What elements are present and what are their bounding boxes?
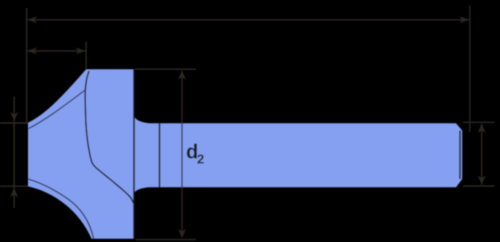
- right d3 top arrowhead (points up): [478, 124, 486, 133]
- d2 bottom arrowhead (points down): [178, 229, 186, 238]
- d2 top arrowhead (points up): [178, 70, 186, 79]
- router bit body (blue silhouette): [28, 69, 462, 238]
- shank end edge: [459, 131, 461, 180]
- right extension line: [469, 6, 471, 133]
- right d3 dimension line: [481, 124, 483, 185]
- head right edge: [133, 69, 135, 238]
- left r bottom arrowhead (points up): [10, 188, 18, 197]
- cutter length right extension: [85, 42, 87, 69]
- neck line: [159, 123, 161, 187]
- left r bottom tick: [0, 185, 28, 187]
- left r dimension line: [13, 97, 15, 209]
- left extension line: [26, 8, 28, 123]
- d2 dimension line: [181, 71, 183, 237]
- right d3 top tick: [463, 121, 495, 123]
- overall length left arrowhead: [27, 16, 37, 23]
- cutter length right arrowhead: [76, 48, 86, 55]
- cutter length left arrowhead: [27, 48, 37, 55]
- cutter length dimension line: [27, 50, 87, 52]
- left r top tick: [0, 122, 28, 124]
- flute line: [85, 71, 134, 203]
- right d3 bottom tick: [463, 185, 495, 187]
- left r top arrowhead (points down): [10, 112, 18, 121]
- svg-text:2: 2: [197, 152, 204, 167]
- overall length right arrowhead: [459, 16, 469, 23]
- right d3 bottom arrowhead (points down): [478, 175, 486, 184]
- overall length dimension line: [27, 19, 470, 21]
- d2 bottom tick: [136, 239, 197, 241]
- lower inner flute curve: [28, 179, 93, 238]
- d2 top tick: [135, 68, 196, 70]
- upper inner flute curve: [28, 90, 84, 128]
